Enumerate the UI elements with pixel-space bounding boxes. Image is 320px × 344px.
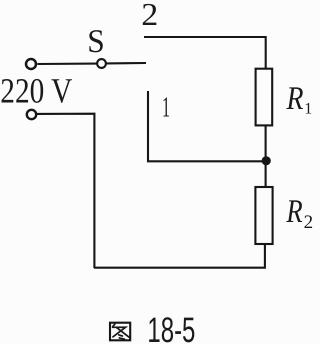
- resistor R2: [255, 187, 272, 244]
- resistor R1: [256, 69, 273, 126]
- wire R2 bottom to lower-left corner: [94, 244, 265, 268]
- svg-text:1: 1: [162, 92, 170, 124]
- switch blade wire: [107, 62, 146, 65]
- label R2: [286, 194, 314, 233]
- terminal T1 (220V upper): [26, 59, 36, 69]
- svg-text:18-5: 18-5: [147, 310, 195, 344]
- label R1: [286, 81, 313, 118]
- terminal T2 (220V lower): [27, 110, 36, 119]
- wire left riser up to terminal T2: [37, 114, 94, 268]
- caption glyph 图 (inner winter radical): [113, 324, 130, 339]
- wire contact 1 to node: [148, 91, 263, 161]
- label 220 V: [0, 71, 72, 111]
- wire node to R2 top: [265, 162, 267, 188]
- wire T1 to switch pivot: [37, 63, 96, 66]
- wire contact 2 to R1 top: [144, 37, 266, 70]
- caption glyph 图 (box): [110, 323, 130, 341]
- svg-text:2: 2: [141, 0, 158, 32]
- svg-text:R: R: [286, 194, 303, 230]
- caption text 18-5: [147, 310, 195, 344]
- label 2 (upper contact): [141, 0, 158, 32]
- svg-text:220 V: 220 V: [0, 71, 72, 111]
- node junction dot: [262, 156, 271, 165]
- svg-text:R: R: [286, 81, 304, 117]
- wire R1 bottom to node: [265, 125, 267, 160]
- svg-text:S: S: [87, 24, 105, 60]
- switch S pivot circle: [97, 59, 106, 68]
- svg-text:1: 1: [304, 101, 312, 118]
- svg-text:2: 2: [304, 212, 314, 233]
- label 1 (lower contact): [162, 92, 170, 124]
- label S: [87, 24, 105, 60]
